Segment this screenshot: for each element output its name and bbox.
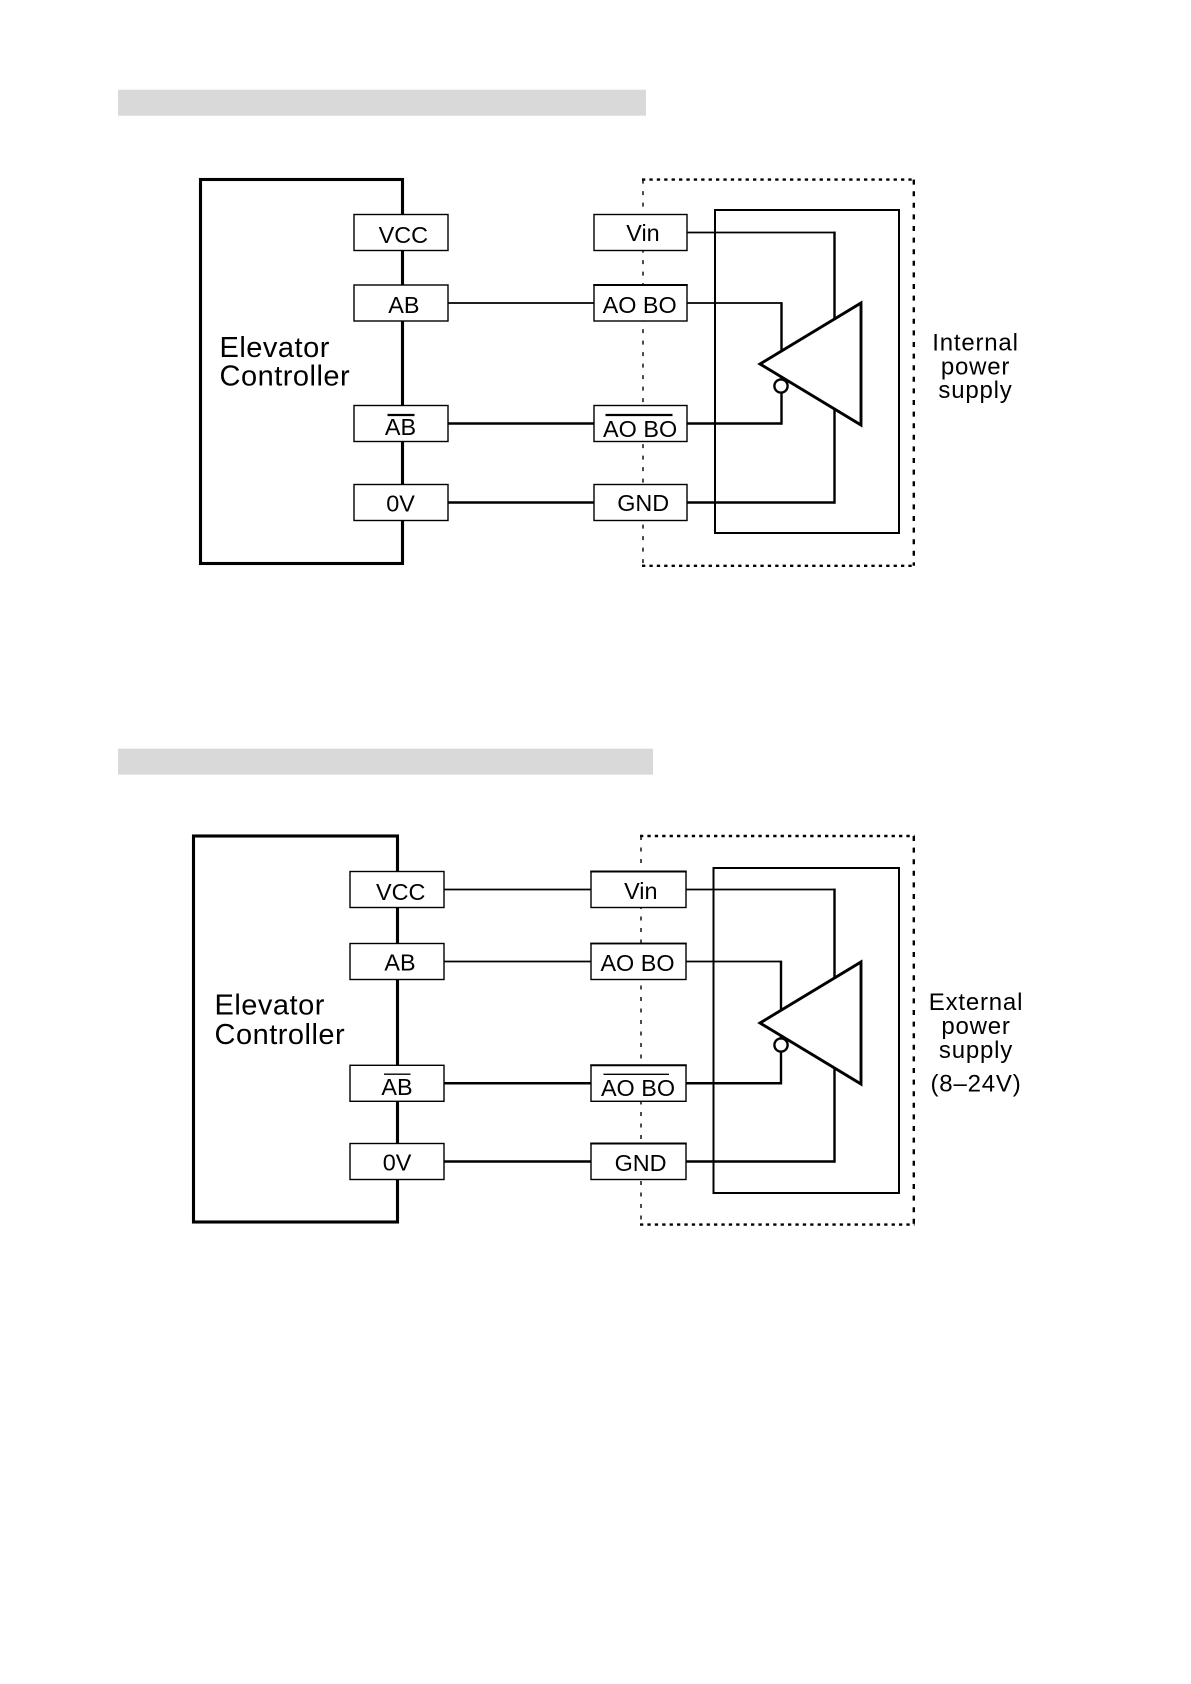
wire AO BO to input rail	[687, 302, 782, 304]
dashed power-supply boundary right edge	[913, 180, 915, 566]
overline for AO-BO-bar	[606, 414, 673, 416]
wire AO BO to input rail	[686, 961, 782, 963]
external supply inner box	[714, 868, 900, 1193]
svg-text:supply: supply	[939, 1037, 1013, 1064]
svg-text:AO BO: AO BO	[603, 292, 677, 318]
section heading bar 1	[118, 90, 646, 116]
svg-text:VCC: VCC	[379, 222, 428, 248]
Elevator Controller box U1	[201, 180, 403, 564]
wire AO-BO-bar to input rail	[686, 1082, 782, 1085]
Elevator Controller box U2	[194, 836, 398, 1222]
svg-text:Vin: Vin	[626, 220, 659, 246]
terminal box AO-BO-bar	[591, 1065, 686, 1101]
terminal box AB-bar	[354, 406, 448, 442]
overline for AO-BO-bar	[604, 1073, 670, 1075]
wire AO-BO-bar to input rail	[687, 422, 783, 425]
terminal box AO-BO-bar	[594, 406, 687, 442]
inverter triangle	[760, 303, 861, 425]
terminal box AB-bar	[350, 1065, 444, 1101]
dashed boundary left edge	[642, 180, 644, 566]
terminal box AO BO	[594, 285, 687, 321]
svg-text:Controller: Controller	[215, 1019, 346, 1051]
svg-text:AB: AB	[388, 292, 419, 318]
rail Vin-GND vertical	[833, 232, 835, 504]
wire Vin to rail	[686, 889, 836, 891]
dashed power-supply boundary top edge	[640, 835, 915, 837]
dashed boundary left edge	[640, 836, 642, 1225]
wire AB to AO BO	[448, 302, 594, 304]
svg-text:External: External	[929, 989, 1023, 1016]
terminal box AB	[354, 285, 448, 321]
svg-text:VCC: VCC	[376, 879, 425, 905]
wire Vin to rail	[687, 232, 836, 234]
wire VCC to Vin	[444, 889, 591, 891]
input rail vertical	[780, 961, 782, 1085]
svg-text:(8–24V): (8–24V)	[931, 1071, 1022, 1098]
terminal box GND	[591, 1144, 686, 1180]
terminal box VCC	[350, 872, 444, 908]
terminal box VCC	[354, 215, 448, 251]
dashed power-supply boundary top edge	[642, 178, 915, 180]
dashed power-supply boundary bottom edge	[640, 1223, 915, 1225]
svg-text:AO BO: AO BO	[603, 416, 677, 442]
dashed power-supply boundary right edge	[913, 836, 915, 1225]
svg-text:Vin: Vin	[624, 878, 657, 904]
svg-text:Elevator: Elevator	[220, 332, 330, 364]
dashed power-supply boundary bottom edge	[642, 565, 915, 567]
svg-text:AO BO: AO BO	[601, 1075, 675, 1101]
svg-text:power: power	[941, 1013, 1010, 1040]
svg-text:AB: AB	[385, 414, 416, 440]
wire AB-bar to AO-BO-bar	[444, 1082, 591, 1085]
svg-text:GND: GND	[617, 490, 669, 516]
rail Vin-GND vertical	[833, 889, 835, 1163]
wire GND to rail	[687, 501, 836, 504]
svg-text:supply: supply	[938, 377, 1012, 404]
inverter bubble	[774, 379, 787, 392]
wire GND to rail	[686, 1160, 836, 1163]
terminal box 0V	[350, 1144, 444, 1180]
wire AB-bar to AO-BO-bar	[448, 422, 594, 425]
svg-text:AB: AB	[381, 1074, 412, 1100]
terminal box Vin	[594, 215, 687, 251]
inverter triangle	[760, 962, 861, 1084]
terminal box AB	[350, 944, 444, 980]
terminal box 0V	[354, 485, 448, 521]
section heading bar 2	[118, 749, 653, 775]
inverter bubble	[774, 1038, 787, 1051]
svg-text:Elevator: Elevator	[215, 990, 325, 1022]
wire AB to AO BO	[444, 961, 591, 963]
input rail vertical	[780, 302, 782, 424]
terminal box AO BO	[591, 944, 686, 980]
svg-text:GND: GND	[615, 1150, 667, 1176]
overline for AB-bar	[384, 1073, 411, 1075]
svg-text:AO BO: AO BO	[600, 950, 674, 976]
svg-text:Internal: Internal	[932, 330, 1018, 357]
terminal box Vin	[591, 872, 686, 908]
internal supply inner box	[715, 210, 899, 533]
svg-text:AB: AB	[384, 950, 415, 976]
wire 0V to GND	[444, 1160, 591, 1163]
svg-text:0V: 0V	[386, 491, 415, 517]
svg-text:Controller: Controller	[220, 361, 351, 393]
svg-text:0V: 0V	[383, 1150, 412, 1176]
terminal box GND	[594, 485, 687, 521]
overline for AB-bar	[388, 414, 415, 416]
wire 0V to GND	[448, 501, 594, 504]
